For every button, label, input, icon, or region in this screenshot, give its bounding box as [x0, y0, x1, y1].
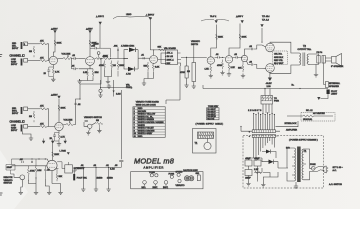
resistor R10 vertical 470K: [99, 61, 106, 71]
svg-text:47K: 47K: [40, 57, 44, 59]
wire osc second line: [12, 165, 47, 167]
svg-text:CHANNEL 2: CHANNEL 2: [10, 121, 25, 124]
svg-text:FREQ.: FREQ.: [126, 87, 133, 89]
resistor R30 15MF box: [6, 159, 15, 174]
wire V2B plate to B+: [58, 99, 60, 122]
svg-text:T.P. 4.2: T.P. 4.2: [262, 20, 270, 22]
ground V1A cathode: [51, 77, 55, 81]
node panel AC receptacle: [184, 176, 194, 181]
node hum balance label: [306, 110, 325, 115]
resistor R16 47K ch2: [40, 123, 47, 127]
svg-text:RED YEL: RED YEL: [274, 60, 284, 62]
capacitor C3 cathode bypass: [72, 66, 79, 71]
wire jacks to speaker: [325, 58, 331, 61]
node bias arrow: [266, 78, 273, 86]
svg-text:10M: 10M: [37, 170, 41, 172]
svg-text:RED: RED: [138, 136, 143, 138]
svg-text:INPUT: INPUT: [11, 130, 18, 132]
wire osc grounds: [28, 177, 36, 190]
ground T1: [294, 184, 298, 188]
svg-text:25M: 25M: [95, 72, 99, 74]
resistor R36 vib switch: [96, 120, 103, 128]
svg-text:220K: 220K: [103, 56, 108, 58]
svg-text:100K: 100K: [242, 37, 247, 39]
svg-text:220K .1: 220K .1: [167, 60, 175, 62]
node 2.2M label: [113, 91, 121, 96]
svg-text:WHITE: WHITE: [138, 125, 145, 127]
svg-text:8.2K: 8.2K: [155, 67, 160, 69]
connector panel jack 2: [153, 181, 159, 190]
node CHANNEL 1 label: [10, 54, 25, 57]
wire osc cathode down: [52, 171, 61, 184]
wire V3A plate to B+: [211, 25, 217, 57]
wire module connections: [158, 53, 181, 66]
node heater arrow: [317, 97, 320, 100]
transformer T2 secondary winding: [307, 54, 309, 64]
node input jack J1 label: [12, 43, 19, 50]
node TUBE KEY table title: [208, 106, 219, 108]
node input jack J3 label: [12, 108, 19, 115]
svg-text:56K: 56K: [59, 176, 63, 178]
svg-text:2.2K: 2.2K: [254, 169, 259, 171]
wire V2A plate up: [150, 50, 165, 56]
svg-text:SPEED: SPEED: [176, 171, 184, 173]
diode D1 vibrato top (dark): [121, 45, 136, 52]
svg-text:220K: 220K: [54, 154, 59, 156]
svg-text:40MF: 40MF: [245, 158, 251, 160]
svg-text:LIGHT: LIGHT: [331, 94, 338, 96]
svg-text:470K: 470K: [30, 171, 35, 173]
node input jack J2 label: [11, 59, 18, 66]
resistor R33 osc plate: [52, 152, 60, 157]
connector terminal strip row2: [249, 135, 276, 139]
node VIBRATO TONE BOARD table title: [136, 101, 160, 107]
node vib bus tap labels: [81, 165, 119, 167]
wire depth pot riser: [193, 46, 195, 63]
svg-text:△150V: △150V: [51, 94, 58, 97]
wire secondary to jacks: [310, 54, 319, 73]
resistor R24 grid V3B: [217, 57, 224, 69]
tube V6 power pentode: [266, 64, 275, 73]
node B+ 100V output arrow: [236, 15, 244, 23]
svg-text:NO. 12: NO. 12: [306, 110, 313, 112]
connector terminal strip row1: [249, 130, 276, 134]
node cap value labels row: [77, 178, 113, 180]
wire intensity out to vibrato bus: [72, 167, 121, 171]
svg-text:AC HEATER: AC HEATER: [313, 112, 325, 115]
svg-text:SPEAKER: SPEAKER: [329, 85, 339, 88]
resistor R37 mixer series: [96, 52, 108, 60]
wire PI outputs to power grids: [245, 45, 266, 69]
wire to PI grid: [241, 57, 243, 58]
capacitor C16 osc line2: [31, 161, 32, 163]
svg-text:INTERLOCK: INTERLOCK: [285, 123, 298, 125]
wire T1 core ground: [295, 182, 297, 184]
wire jack to ground: [21, 183, 23, 190]
wire ch2 mix riser: [73, 90, 80, 125]
ground tone divider: [106, 80, 110, 84]
wire V5 plate to OPT: [270, 42, 299, 53]
wire board box drop: [166, 66, 180, 104]
node MODEL M8 title: [134, 157, 175, 170]
svg-text:2MEG: 2MEG: [97, 178, 103, 180]
node VIBRATO SWITCH label: [84, 116, 102, 119]
svg-text:1M .02: 1M .02: [167, 56, 174, 58]
capacitor C9 coupling to PI: [233, 54, 243, 59]
svg-text:2.2K: 2.2K: [231, 67, 236, 69]
potentiometer VOLUME ch2: [63, 120, 73, 126]
node heater bus dots: [264, 88, 300, 89]
wire diode column: [124, 50, 138, 69]
connector jack J4: [21, 125, 28, 132]
svg-text:CAUTION 125V: CAUTION 125V: [183, 169, 198, 172]
diode D2 vibrato bottom (dark): [126, 67, 135, 76]
transformer/board module box: [164, 47, 178, 65]
wire V2A grounds: [144, 72, 153, 82]
svg-text:( POWER SUPPLY CABLE ): ( POWER SUPPLY CABLE ): [196, 123, 224, 126]
svg-text:BROWN: BROWN: [138, 111, 146, 113]
svg-text:WHITE / BL. BL.: WHITE / BL. BL.: [138, 116, 154, 118]
ground V1B cathode: [77, 79, 81, 83]
wire T1 primary taps: [287, 148, 295, 181]
ground R20: [192, 84, 196, 88]
svg-text:REMOTE: REMOTE: [4, 177, 14, 179]
node panel tone knobs: [149, 172, 158, 177]
wire T1 secondary to fuse: [303, 149, 317, 180]
wire osc top line: [12, 159, 49, 162]
svg-text:1M: 1M: [29, 116, 32, 118]
svg-text:1M: 1M: [96, 120, 99, 122]
wire V1A cathode: [52, 65, 54, 69]
wire cathode to ground: [80, 78, 94, 80]
svg-text:AMPLIFIER: AMPLIFIER: [286, 129, 297, 132]
svg-text:470K: 470K: [99, 65, 104, 67]
resistor R8 tail: [92, 69, 99, 79]
wire grid junction: [47, 44, 50, 61]
svg-text:△150V: △150V: [86, 28, 93, 31]
svg-text:40MF: 40MF: [254, 158, 260, 160]
ground V2B: [57, 142, 61, 146]
node panel fuse: [169, 173, 175, 178]
wire V1B plate to tone section: [94, 58, 103, 60]
connector jack J3: [21, 107, 28, 114]
svg-text:INST.: INST.: [153, 187, 159, 189]
svg-text:WHITE / GREEN: WHITE / GREEN: [138, 119, 154, 121]
node panel speed knob: [176, 171, 184, 176]
resistor R35 tone extra: [117, 61, 125, 77]
transformer T1 bell circle: [204, 139, 211, 150]
svg-text:100K: 100K: [57, 43, 62, 45]
svg-text:4.7MEG 1N34: 4.7MEG 1N34: [121, 45, 135, 47]
wire harness drops to supply: [254, 137, 275, 161]
resistor R2 grid stopper: [40, 57, 47, 61]
svg-text:100K: 100K: [61, 108, 66, 110]
resistor R11 vertical 1M: [111, 61, 116, 71]
tube V2A triode vibrato: [150, 55, 158, 63]
svg-text:WIRE COLOR CODE: WIRE COLOR CODE: [136, 105, 157, 107]
capacitor C21 cathode bypass V2B: [50, 133, 60, 142]
tube V1B triode: [86, 57, 95, 66]
connector speaker jack pair: [317, 52, 326, 63]
wire bus drops to connector: [265, 89, 270, 96]
svg-text:VOLUME: VOLUME: [64, 120, 73, 122]
resistor R6 plate load: [89, 40, 97, 46]
ground V3A cathode: [209, 74, 213, 78]
wire V1B cathode net: [72, 59, 94, 69]
svg-text:V5 5Y3: V5 5Y3: [207, 119, 215, 121]
svg-text:470K: 470K: [217, 65, 222, 67]
node junction V2A plate: [153, 49, 154, 50]
svg-text:WHITE / BROWN: WHITE / BROWN: [138, 130, 155, 132]
svg-text:15MF: 15MF: [7, 167, 13, 169]
node control panel outline: [131, 172, 203, 189]
node B+ label V1A: [51, 28, 58, 33]
resistor R31 osc divider: [27, 166, 35, 181]
resistor R1 47K: [40, 41, 47, 46]
transformer T1 secondary winding: [302, 149, 307, 180]
node external speaker label: [326, 82, 341, 88]
svg-text:1.5M: 1.5M: [110, 169, 115, 171]
svg-text:INPUT: INPUT: [11, 64, 18, 66]
transformer T2 primary winding: [299, 53, 301, 65]
node left edge mark 1: [0, 55, 2, 57]
svg-text:-38.5V: -38.5V: [266, 83, 273, 85]
node B+ 70.4V arrow: [201, 16, 229, 23]
capacitor C2 coupling: [71, 55, 79, 60]
ground V3B cathode: [227, 72, 231, 76]
wire hv feed line: [101, 80, 127, 97]
svg-text:AMPLIFIER: AMPLIFIER: [144, 165, 165, 169]
svg-text:PWR: PWR: [274, 101, 279, 103]
resistor R9 tone 220K: [102, 48, 110, 59]
ground mid left: [107, 84, 111, 88]
svg-text:68K: 68K: [158, 47, 162, 49]
capacitor C11 PI bottom: [249, 61, 253, 65]
ground supply caps: [246, 182, 250, 186]
svg-text:OUTPUT TRA.: OUTPUT TRA.: [298, 48, 312, 51]
wire V6 cathode to bias: [269, 72, 271, 77]
svg-text:1.5K: 1.5K: [83, 72, 88, 74]
wire to V2A grid: [138, 57, 149, 59]
node note text top right: [262, 16, 270, 22]
svg-text:1M: 1M: [113, 65, 116, 67]
node heater bus labels: [267, 85, 295, 89]
transformer T2 core: [303, 53, 305, 67]
svg-text:VIBRATO SWITCH: VIBRATO SWITCH: [84, 116, 102, 119]
wire pilot to heater line: [321, 94, 329, 99]
svg-text:⊥ INPUT: ⊥ INPUT: [146, 14, 155, 17]
capacitor C8 coupling V3A-V3B: [215, 54, 225, 59]
svg-text:WHITE / GREY: WHITE / GREY: [138, 133, 153, 135]
capacitor C13 filter 40MF: [254, 158, 261, 166]
resistor R34 osc cathode: [56, 169, 63, 182]
svg-text:HUM BAL: HUM BAL: [303, 118, 313, 121]
wire ch2 jack sleeve to ground: [22, 132, 31, 137]
capacitor C12 filter 40MF: [245, 158, 252, 166]
node 117V label: [333, 167, 344, 172]
tube V2B triode ch2: [55, 122, 63, 130]
node B+ arrows oscillator rail: [42, 139, 66, 144]
node panel right module: [196, 173, 201, 180]
node CHANNEL 2 label: [10, 120, 25, 123]
svg-text:56K: 56K: [144, 66, 148, 68]
resistor R25 plate V3B: [239, 34, 247, 40]
svg-text:L 7025: L 7025: [60, 151, 67, 153]
ground osc cathode: [58, 190, 62, 194]
svg-text:VIBRATO TONE BOARD: VIBRATO TONE BOARD: [136, 101, 160, 104]
wire heater bus line: [203, 85, 328, 89]
capacitor C14 osc line: [20, 159, 24, 163]
svg-text:2.7K: 2.7K: [61, 137, 66, 139]
svg-text:70.4 V.: 70.4 V.: [210, 16, 217, 18]
svg-text:EXTERNAL: EXTERNAL: [329, 82, 341, 85]
capacitor C15 osc fb: [44, 166, 50, 179]
node harness top dots: [253, 112, 275, 115]
wire J3 to grid: [28, 108, 40, 110]
svg-text:△100 V: △100 V: [236, 15, 244, 18]
node strip left dot: [240, 126, 241, 127]
svg-text:MODEL m8: MODEL m8: [134, 157, 175, 166]
transformer T1 primary winding: [291, 148, 296, 181]
resistor R20 tall box 1M: [187, 63, 196, 82]
capacitor C10 PI top: [249, 46, 253, 50]
tube V5 power pentode: [266, 43, 275, 52]
node 150V label near C4: [94, 43, 100, 46]
wire J1 to grid network: [28, 43, 40, 45]
connector panel jack 1: [142, 181, 147, 190]
ground R36: [97, 128, 101, 132]
wire mix junction to main: [80, 59, 101, 91]
resistor R22 plate V3A: [216, 34, 224, 40]
resistor R32 osc divider2: [35, 159, 42, 179]
svg-text:FOOT SW.: FOOT SW.: [77, 178, 88, 180]
svg-text:VOLUME: VOLUME: [62, 54, 71, 56]
resistor R28 hum balance: [287, 113, 335, 122]
capacitor C17 vib switch: [85, 121, 88, 122]
wire J4 to grid: [28, 126, 40, 128]
node power supply dashed enclosure: [243, 136, 324, 188]
capacitor C20 cathode bypass V1A: [44, 67, 54, 77]
svg-text:20MF: 20MF: [245, 178, 251, 180]
ground R24: [220, 71, 224, 75]
rectifier D4 silicon: [262, 150, 276, 159]
wire harness verticals: [254, 113, 275, 130]
wire V1A plate to B+: [53, 31, 55, 56]
ground osc R31: [34, 190, 38, 194]
resistor R5 cathode: [52, 69, 60, 77]
svg-text:SWITCH: SWITCH: [4, 183, 13, 185]
ground bus drop3: [106, 187, 110, 191]
svg-text:FUSE: FUSE: [169, 173, 175, 175]
svg-text:A.C.: A.C.: [333, 169, 337, 172]
capacitor C7 ch2 coupling: [74, 103, 81, 106]
svg-text:2.7K: 2.7K: [55, 72, 60, 74]
node panel vibrato jack: [176, 179, 185, 187]
wire main line to driver section: [181, 56, 207, 58]
ground bus drop2: [94, 187, 98, 191]
svg-text:10K: 10K: [238, 68, 242, 70]
fuse F1: [310, 164, 316, 170]
wire tone to diode: [110, 51, 128, 59]
svg-text:VIBRATO: VIBRATO: [191, 40, 200, 43]
ground R21: [184, 83, 188, 87]
transformer T1 core: [297, 147, 300, 183]
node B+ label V1B: [86, 28, 93, 33]
connector AC plug: [323, 166, 328, 173]
wire vib bus drops: [83, 167, 108, 187]
resistor R23 cathode V3A: [205, 64, 212, 73]
capacitor C6 vib coupling: [141, 55, 145, 60]
svg-text:47K: 47K: [40, 106, 44, 108]
svg-text:220K: 220K: [218, 37, 223, 39]
resistor R14 below V2A cathode: [152, 63, 160, 72]
node INPUT arrow vibrato feed: [146, 14, 155, 50]
svg-text:△150V: △150V: [51, 28, 58, 31]
node L7025 tube label: [60, 151, 70, 155]
svg-text:VIB. BOARD: VIB. BOARD: [164, 47, 176, 50]
svg-text:1.5K: 1.5K: [205, 69, 210, 71]
resistor R21 tall box 470K: [180, 57, 188, 83]
lamp pilot light: [327, 90, 338, 96]
resistor R27 PI tail: [238, 62, 244, 73]
switch S1 AC: [315, 167, 323, 172]
connector cable plug hatched: [198, 132, 214, 139]
svg-text:WHITE / VIOLET: WHITE / VIOLET: [138, 128, 155, 130]
tube V3A driver: [207, 57, 214, 64]
svg-text:( POWER SUPPLY CHASSIS ): ( POWER SUPPLY CHASSIS ): [289, 138, 318, 141]
node harness top labels: [248, 110, 262, 112]
svg-text:TONE: TONE: [149, 172, 155, 174]
resistor R3 1MEG grid leak: [29, 46, 35, 57]
wire J2 to grid network: [28, 60, 40, 62]
svg-text:1M: 1M: [187, 71, 190, 73]
svg-text:1MEG: 1MEG: [107, 178, 113, 180]
wire R20 bottom to ground: [193, 82, 195, 85]
svg-text:△150: △150: [94, 43, 100, 46]
wire to external speaker: [324, 63, 326, 85]
node junction tone: [110, 58, 111, 59]
node input jack J4 label: [11, 125, 18, 132]
connector jack J1: [21, 42, 28, 49]
svg-text:4.7M: 4.7M: [126, 74, 131, 76]
svg-text:DEPTH: DEPTH: [191, 44, 199, 46]
rectifier D3 silicon: [269, 160, 274, 165]
node B+ 150V arrow (top left): [96, 15, 104, 24]
node junction diodes: [123, 58, 124, 59]
capacitor C19 electrolytic dark: [73, 167, 75, 180]
svg-text:RED: RED: [138, 108, 143, 110]
svg-text:2.2M: 2.2M: [116, 94, 121, 96]
node REMOTE VIBRATO SWITCH label: [4, 177, 14, 185]
svg-text:VIBRATO: VIBRATO: [176, 184, 185, 187]
svg-text:MIC.: MIC.: [142, 187, 147, 189]
capacitor C5 treble: [114, 46, 120, 51]
svg-text:GRN BLK: GRN BLK: [274, 57, 284, 59]
wire V6 plate to OPT: [270, 65, 299, 73]
capacitor C4 top coupling: [90, 46, 102, 50]
node junction osc dots: [22, 158, 46, 159]
svg-text:SW.: SW.: [196, 173, 200, 175]
connector panel jack 3: [163, 181, 169, 190]
node brace LEAD label: [113, 13, 152, 19]
svg-text:INPUT: INPUT: [12, 48, 19, 50]
svg-text:INPUT: INPUT: [12, 113, 19, 115]
wire bias plug leads: [263, 104, 272, 113]
wire to V1B grid: [79, 58, 86, 60]
wire V1B plate to B+: [89, 31, 91, 57]
tube V4 phase inverter: [241, 55, 247, 61]
wire V1A plate to volume pot: [58, 58, 64, 60]
